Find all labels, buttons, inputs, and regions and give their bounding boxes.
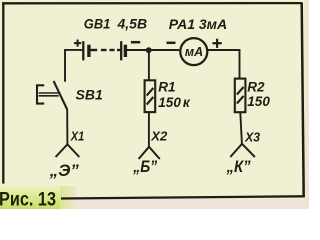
svg-text:„К”: „К” — [226, 157, 251, 176]
svg-text:4,5В: 4,5В — [117, 16, 148, 32]
svg-text:150: 150 — [247, 94, 270, 109]
svg-text:R2: R2 — [247, 80, 265, 95]
svg-text:мА: мА — [185, 45, 203, 59]
svg-text:X3: X3 — [244, 130, 261, 145]
svg-text:150к: 150к — [158, 95, 191, 110]
svg-text:SB1: SB1 — [76, 87, 103, 103]
svg-text:„Б”: „Б” — [132, 157, 157, 176]
svg-text:GB1: GB1 — [84, 16, 111, 32]
svg-text:„Э”: „Э” — [49, 161, 79, 180]
svg-text:X2: X2 — [150, 129, 168, 144]
svg-text:X1: X1 — [70, 129, 84, 144]
svg-text:PA1 3мА: PA1 3мА — [169, 16, 227, 32]
svg-text:Рис. 13: Рис. 13 — [0, 189, 56, 209]
svg-text:R1: R1 — [158, 80, 175, 95]
